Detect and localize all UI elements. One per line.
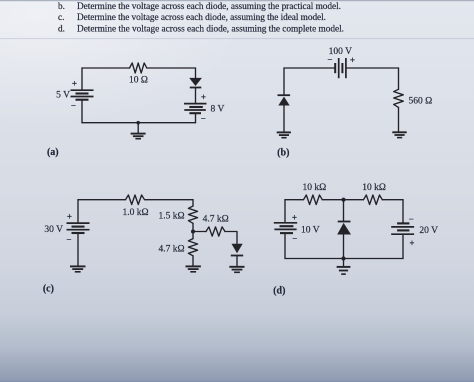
svg-text:(d): (d)	[273, 286, 285, 297]
svg-text:(c): (c)	[43, 284, 54, 295]
bottom scan edge shading	[0, 381, 474, 382]
resistor 1.0 kΩ (c)	[126, 195, 147, 205]
svg-text:10 Ω: 10 Ω	[129, 76, 148, 86]
ground (d)	[337, 259, 351, 275]
svg-text:4.7 kΩ: 4.7 kΩ	[203, 215, 229, 225]
node (a) ground junction	[136, 121, 140, 125]
diode D1 (a) pointing down	[189, 78, 202, 88]
label + (5V battery)	[72, 79, 77, 89]
faint scan artifact line	[0, 37, 474, 40]
wire (c) top-left	[78, 199, 126, 201]
battery 10V (d)	[274, 223, 297, 233]
svg-text:8 V: 8 V	[211, 105, 225, 115]
wire (d) right lower	[402, 234, 404, 258]
wire (c) node to horizontal resistor	[193, 231, 206, 233]
wire (d) left upper	[284, 200, 286, 223]
diode D2 (b) pointing up	[278, 95, 291, 105]
ground (c) middle	[186, 266, 201, 271]
battery 8V (a)	[184, 104, 207, 114]
svg-text:1.0 kΩ: 1.0 kΩ	[122, 208, 148, 218]
svg-text:+: +	[67, 212, 72, 222]
wire (a) right lower	[195, 113, 197, 123]
wire (c) top-right	[146, 199, 193, 201]
problem text line d	[58, 24, 344, 34]
label + (20V battery)	[409, 238, 414, 248]
label − (30V battery)	[66, 235, 71, 245]
svg-text:5 V: 5 V	[56, 91, 70, 101]
label − (100V battery)	[327, 55, 332, 65]
label 100 V	[329, 47, 352, 57]
wire (d) right upper	[402, 200, 404, 223]
wire (d) top-right	[382, 199, 403, 201]
label (d)	[273, 286, 285, 297]
problem text line c	[58, 13, 326, 23]
wire (a) left upper	[81, 68, 83, 90]
wire (c) branch bottom	[192, 256, 194, 266]
svg-text:−: −	[327, 55, 332, 65]
label + (100V battery)	[350, 55, 355, 65]
wire (c) left lower	[77, 233, 79, 266]
label + (10V battery)	[292, 212, 297, 222]
resistor 10 kΩ right (d)	[364, 195, 383, 205]
label 10 Ω	[129, 76, 148, 86]
svg-text:d.: d.	[58, 24, 65, 34]
svg-text:+: +	[350, 55, 355, 65]
diode D3 (c) pointing down	[231, 244, 243, 256]
wire (c) branch upper	[192, 200, 194, 206]
svg-text:10 kΩ: 10 kΩ	[362, 183, 386, 193]
svg-text:Determine the voltage across e: Determine the voltage across each diode,…	[77, 2, 341, 12]
ground (c) left	[70, 266, 86, 271]
ground (c) right	[229, 267, 244, 273]
label 30 V	[44, 225, 63, 235]
diode D4 (d) pointing up	[337, 222, 351, 235]
svg-text:560 Ω: 560 Ω	[409, 97, 433, 107]
battery 20V (d) reversed	[391, 223, 414, 234]
top scan edge line	[0, 0, 474, 1]
node (c) junction	[191, 230, 195, 234]
label 4.7 kΩ (horizontal resistor)	[203, 215, 229, 225]
label 560 Ω	[409, 97, 433, 107]
label + (8V battery)	[201, 92, 206, 102]
svg-text:+: +	[201, 92, 206, 102]
resistor 560Ω (b)	[394, 89, 404, 107]
wire (d) top-left	[285, 199, 304, 201]
svg-text:30 V: 30 V	[44, 225, 63, 235]
resistor 1.5 kΩ (c)	[188, 206, 197, 223]
svg-text:10 kΩ: 10 kΩ	[303, 183, 327, 193]
battery 5V (a)	[71, 90, 94, 100]
svg-text:(a): (a)	[47, 147, 59, 158]
resistor 10Ω (a)	[130, 63, 147, 73]
svg-text:−: −	[71, 101, 76, 111]
label 8 V	[211, 105, 225, 115]
wire (d) middle lower	[343, 235, 345, 259]
ground (b) right	[392, 132, 406, 137]
wire (b) right upper	[398, 68, 400, 89]
label 10 V	[301, 226, 320, 236]
battery 30V (c)	[67, 223, 90, 233]
wire (c) left upper	[77, 200, 79, 223]
label + (30V battery)	[67, 212, 72, 222]
wire (d) middle upper	[343, 200, 345, 222]
svg-text:−: −	[409, 214, 414, 224]
svg-text:Determine the voltage across e: Determine the voltage across each diode,…	[77, 13, 326, 23]
wire (a) right middle	[195, 88, 197, 104]
wire (c) below diode	[236, 256, 238, 267]
label − (20V battery)	[409, 214, 414, 224]
svg-text:c.: c.	[58, 13, 64, 23]
wire (a) right upper	[195, 68, 197, 78]
label − (8V battery)	[201, 113, 206, 123]
problem text line b	[58, 2, 341, 12]
node (d) bottom junction	[341, 256, 345, 260]
label 1.0 kΩ	[122, 208, 148, 218]
svg-text:b.: b.	[58, 2, 65, 12]
wire (c) branch lower upper-part	[192, 232, 194, 239]
ground (b) left	[277, 132, 291, 137]
label 1.5 kΩ	[158, 212, 184, 222]
wire (d) bottom	[285, 258, 403, 260]
label 20 V	[419, 226, 438, 236]
label 10 kΩ (right)	[362, 183, 386, 193]
svg-text:20 V: 20 V	[419, 226, 438, 236]
wire (d) top-middle-left	[322, 199, 343, 201]
label 10 kΩ (left)	[303, 183, 327, 193]
wire (b) top-left	[284, 67, 334, 69]
wire (b) left vertical	[283, 68, 285, 95]
svg-text:(b): (b)	[277, 148, 289, 159]
svg-text:−: −	[292, 234, 297, 244]
ground (a)	[131, 123, 146, 139]
wire (c) to diode	[225, 232, 237, 244]
resistor 10 kΩ left (d)	[304, 195, 323, 205]
label − (10V battery)	[292, 234, 297, 244]
label − (5V battery)	[71, 101, 76, 111]
wire (d) left lower	[284, 233, 286, 258]
wire (a) top-left segment	[82, 67, 130, 69]
wire (a) top-right segment	[147, 67, 196, 69]
label (b)	[277, 148, 289, 159]
wire (b) left lower	[283, 106, 285, 132]
svg-text:+: +	[72, 79, 77, 89]
svg-text:−: −	[66, 235, 71, 245]
battery 100V (b) horizontal	[335, 58, 346, 78]
wire (b) top-right	[347, 67, 399, 69]
node (d) top junction	[341, 198, 345, 202]
label 5 V	[56, 91, 70, 101]
svg-text:4.7 kΩ: 4.7 kΩ	[158, 245, 184, 255]
svg-text:10 V: 10 V	[301, 226, 320, 236]
label (a)	[47, 147, 59, 158]
svg-text:+: +	[409, 238, 414, 248]
resistor 4.7 kΩ vertical (c)	[188, 239, 197, 256]
wire (d) top-middle-right	[344, 199, 364, 201]
wire (b) right lower	[398, 107, 400, 131]
svg-text:−: −	[201, 113, 206, 123]
wire (a) bottom	[82, 122, 196, 124]
resistor 4.7 kΩ horizontal (c)	[206, 227, 225, 236]
wire (c) branch middle	[192, 223, 194, 231]
svg-text:1.5 kΩ: 1.5 kΩ	[158, 212, 184, 222]
label 4.7 kΩ (vertical resistor)	[158, 245, 184, 255]
svg-text:+: +	[292, 212, 297, 222]
label (c)	[43, 284, 54, 295]
svg-text:Determine the voltage across e: Determine the voltage across each diode,…	[77, 24, 344, 34]
wire (a) left lower	[81, 100, 83, 123]
